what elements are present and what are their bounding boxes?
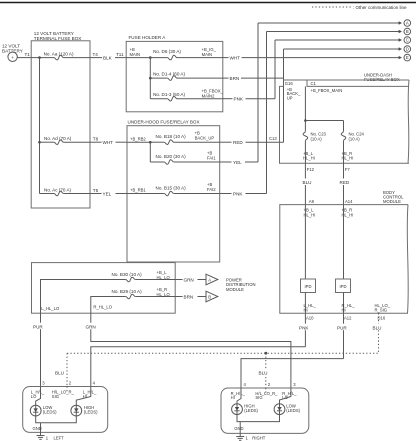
svg-text:T5: T5 (93, 188, 99, 193)
svg-text:HL_LO: HL_LO (157, 275, 171, 280)
svg-text:No. Ad (70 A): No. Ad (70 A) (44, 136, 72, 141)
triangle connector A (206, 274, 218, 285)
wire GRN R_HL_LO to right headlight pin 3 (84, 313, 291, 388)
svg-text:No. D6 (30 A): No. D6 (30 A) (153, 49, 181, 54)
connector D (284, 46, 411, 53)
svg-text:PUR: PUR (33, 324, 43, 329)
svg-text:No. D1-4 (60 A): No. D1-4 (60 A) (153, 71, 185, 76)
wire PNK A10 L_HL_HI to left headlight pin 4 (91, 313, 312, 386)
ground right, pin 1 (236, 433, 266, 440)
svg-text:GND: GND (33, 426, 42, 431)
svg-text:PNK: PNK (299, 325, 309, 330)
right headlight (221, 388, 309, 433)
wire BLU dotted drop to left headlight pin 2 (55, 353, 67, 386)
wire PUR A12 R_HL_HI to right headlight pin 4 (241, 313, 350, 388)
svg-text:YEL: YEL (103, 192, 112, 197)
svg-text:No. B20 (30 A): No. B20 (30 A) (156, 154, 187, 159)
svg-text:No. B18 (10 A): No. B18 (10 A) (156, 134, 187, 139)
IPD right (336, 279, 351, 293)
svg-text:GRN: GRN (184, 277, 194, 282)
node L_HL_HI (304, 303, 317, 312)
lamp HIGH (LEDS) right (232, 403, 259, 414)
svg-text:R_SIG: R_SIG (375, 307, 388, 312)
svg-text:B: B (208, 294, 211, 299)
fuse D6 (30 A) (150, 47, 223, 60)
svg-text:: Other communication line: : Other communication line (353, 5, 407, 10)
svg-text:G16: G16 (285, 81, 294, 86)
svg-text:2: 2 (268, 382, 271, 387)
wire GRN to triangle connector A (175, 277, 205, 282)
wire YEL +B FAI1 to connector A (220, 160, 258, 165)
node L_HL_HI pin label (83, 389, 97, 398)
svg-text:(10 A): (10 A) (311, 136, 323, 141)
svg-text:FUSE/RELAY BOX: FUSE/RELAY BOX (364, 77, 400, 82)
wire RED F7 to BCM A14 (339, 163, 351, 204)
fuse Aa (120 A) (31, 51, 90, 59)
wire BRN to connector D (223, 76, 284, 81)
top page border line (0, 2, 416, 4)
wire BLU F12 to BCM A9 (302, 163, 313, 204)
svg-text:BRN: BRN (230, 76, 240, 81)
connector B (267, 28, 411, 35)
lamp HIGH (LEDS) left (71, 405, 98, 416)
wire battery to fuse box, terminal T1 (17, 52, 31, 57)
svg-text:(LEDS): (LEDS) (84, 410, 98, 415)
wire BLU D16 communication line (67, 313, 385, 353)
svg-text:T1: T1 (25, 52, 31, 57)
svg-text:BRN: BRN (184, 294, 194, 299)
svg-text:No. Ac (70 A): No. Ac (70 A) (44, 187, 72, 192)
svg-text:MODULE: MODULE (383, 199, 401, 204)
node HL_LO_R_SIG (375, 303, 391, 312)
svg-text:BLU: BLU (303, 180, 312, 185)
node under-dash internal bus (304, 86, 343, 131)
svg-text:BLU: BLU (259, 371, 268, 376)
svg-text:3: 3 (293, 382, 296, 387)
wire pin4 to high beam lamp (76, 387, 91, 406)
svg-text:D: D (406, 47, 409, 52)
svg-text:No. D1-3 (50 A): No. D1-3 (50 A) (153, 92, 185, 97)
svg-text:+B_FBOX_MAIN: +B_FBOX_MAIN (311, 88, 343, 93)
svg-text:A: A (208, 277, 211, 282)
svg-text:RIGHT: RIGHT (252, 436, 265, 441)
svg-text:HL_HI: HL_HI (303, 156, 315, 161)
svg-text:MAIN2: MAIN2 (202, 93, 215, 98)
svg-text:4: 4 (93, 380, 96, 385)
svg-text:A14: A14 (345, 199, 353, 204)
svg-text:HI: HI (342, 307, 346, 312)
under-dash fuse/relay box (280, 73, 410, 164)
svg-text:3: 3 (42, 380, 45, 385)
node R_HL_HI (342, 303, 356, 312)
power distribution module label (226, 277, 256, 292)
node +B MAIN (126, 56, 151, 98)
svg-text:A9: A9 (309, 199, 315, 204)
lamp LOW (LEDS) right (274, 403, 301, 414)
svg-text:4: 4 (244, 382, 247, 387)
fuse B18 (10 A) (150, 131, 219, 145)
fuse C23 (10 A) (303, 131, 327, 163)
ground left, pin 1 (37, 432, 65, 440)
svg-text:UP: UP (287, 96, 293, 101)
svg-text:FAI2: FAI2 (207, 187, 216, 192)
connector E (399, 54, 411, 61)
svg-text:No. B29 (10 A): No. B29 (10 A) (112, 289, 143, 294)
svg-text:A12: A12 (344, 316, 352, 321)
12 volt battery (2, 44, 23, 62)
node battery bus (38, 56, 41, 193)
fuse D1-3 (50 A) (150, 89, 223, 101)
triangle connector B (206, 291, 218, 302)
svg-text:GRN: GRN (86, 324, 96, 329)
wire pin3 to low beam lamp right (280, 388, 291, 404)
svg-text:A10: A10 (306, 316, 314, 321)
node +B_R HL_HI (BCM) (342, 205, 354, 279)
connector C (275, 37, 411, 44)
svg-text:IPD: IPD (340, 284, 347, 289)
fuse Ac (70 A) (40, 187, 91, 196)
svg-text:(10 A): (10 A) (349, 136, 361, 141)
svg-text:B: B (406, 29, 409, 34)
node HL_LO_R_SIG pin label left (52, 389, 75, 398)
fuse B29 (10 A) (91, 287, 175, 313)
svg-text:F7: F7 (345, 167, 351, 172)
under-hood fuse/relay box (127, 120, 220, 262)
svg-text:E: E (406, 55, 409, 60)
svg-text:RED: RED (233, 140, 243, 145)
svg-text:T11: T11 (116, 52, 124, 57)
node R_HL_HI pin label (231, 391, 246, 400)
fuse B20 (30 A) (150, 151, 219, 165)
svg-text:C: C (406, 38, 409, 43)
svg-text:No. B30 (10 A): No. B30 (10 A) (112, 272, 143, 277)
node L_HL_LO pin label (31, 389, 45, 398)
svg-text:BACK_UP: BACK_UP (195, 135, 215, 140)
svg-text:GND: GND (234, 426, 243, 431)
wire BLU dotted drop to right headlight pin 2 (258, 353, 271, 388)
svg-text:FAI1: FAI1 (207, 155, 216, 160)
svg-text:+: + (11, 55, 14, 60)
svg-text:RED: RED (340, 180, 350, 185)
svg-text:LO: LO (31, 394, 37, 399)
svg-text:SIG: SIG (52, 394, 59, 399)
svg-text:No. B15 (30 A): No. B15 (30 A) (156, 185, 187, 190)
ground rail right (234, 415, 279, 434)
power distribution module box (32, 263, 176, 314)
svg-text:T4: T4 (93, 52, 99, 57)
12 volt battery terminal fuse box (31, 31, 90, 208)
wire RED +B BACK_UP to under-dash C13 (220, 140, 284, 145)
connector A (258, 20, 411, 27)
fuse D1-4 (60 A) (150, 71, 223, 80)
svg-text:PUR: PUR (337, 325, 347, 330)
wire riser to connector B (266, 32, 268, 194)
wire riser to connector C (274, 40, 276, 99)
svg-text:No. Aa (120 A): No. Aa (120 A) (44, 51, 74, 56)
body control module (280, 190, 408, 313)
wire pin2 stub left (66, 387, 68, 393)
svg-text:D16: D16 (378, 316, 386, 321)
wire PUR L_HL_LO to left headlight pin 3 (32, 313, 46, 386)
svg-text:BATTERY: BATTERY (2, 49, 23, 54)
wire T4 BLK to fuse holder A, terminal T11 (90, 52, 126, 60)
svg-text:C13: C13 (269, 136, 277, 141)
node +B_RB2 (127, 136, 152, 162)
svg-text:+B_RB1: +B_RB1 (130, 187, 146, 192)
svg-text:(LEDS): (LEDS) (244, 408, 258, 413)
wire PNK +B_FBOX_MAIN2 to connector C (223, 97, 275, 102)
IPD left (301, 279, 316, 293)
svg-text:1: 1 (46, 435, 49, 440)
wire IPD left to A10 (304, 293, 306, 314)
ground rail left (33, 416, 77, 432)
wire T8 WHT to under-hood box (90, 136, 127, 145)
svg-text:IPD: IPD (305, 284, 312, 289)
fuse Ad (70 A) (40, 136, 91, 145)
wire T5 YEL to under-hood box (90, 188, 127, 197)
svg-text:2: 2 (69, 380, 72, 385)
fuse B30 (10 A) (41, 270, 176, 313)
svg-text:MODULE: MODULE (226, 287, 244, 292)
wire pin3 to low beam lamp (36, 387, 41, 406)
wire riser to connector A (257, 23, 259, 162)
node HL_LO_R_SIG pin label right (255, 391, 278, 400)
svg-text:PNK: PNK (234, 97, 244, 102)
svg-text:HL_LO: HL_LO (157, 292, 171, 297)
node R_HL_LO pin label (282, 391, 297, 400)
svg-text:L_HL_LO: L_HL_LO (41, 306, 60, 311)
svg-text:C1: C1 (311, 81, 317, 86)
wire riser to connector D / G16 feed (283, 49, 285, 142)
fuse C24 (10 A) (341, 131, 364, 163)
svg-text:(LEDS): (LEDS) (286, 408, 300, 413)
svg-text:WHT: WHT (230, 55, 241, 60)
wire BRN to triangle connector B (175, 294, 205, 299)
svg-text:WHT: WHT (103, 140, 114, 145)
fuse holder A (126, 35, 223, 112)
svg-text:MAIN: MAIN (202, 52, 212, 57)
left headlight (23, 387, 108, 433)
svg-text:TERMINAL FUSE BOX: TERMINAL FUSE BOX (34, 36, 82, 41)
svg-text:1: 1 (246, 436, 249, 441)
svg-text:FUSE HOLDER A: FUSE HOLDER A (129, 35, 167, 40)
svg-text:HL_HI: HL_HI (342, 156, 354, 161)
svg-text:LEFT: LEFT (54, 435, 65, 440)
fuse B15 (30 A) (156, 182, 220, 196)
svg-text:BLU: BLU (55, 371, 64, 376)
svg-text:UNDER-HOOD FUSE/RELAY BOX: UNDER-HOOD FUSE/RELAY BOX (128, 120, 200, 125)
node +B_L HL_HI (BCM) (304, 205, 316, 279)
svg-text:SIG: SIG (255, 395, 262, 400)
node dotted junction (264, 352, 267, 355)
svg-text:+B_RB2: +B_RB2 (130, 136, 146, 141)
svg-text:HI: HI (231, 395, 235, 400)
svg-text:(LEDS): (LEDS) (43, 410, 57, 415)
wire pin2 stub right (265, 388, 267, 394)
wire PNK +B FAI2 to connector B (220, 191, 267, 196)
svg-text:MAIN: MAIN (130, 52, 140, 57)
svg-text:F12: F12 (307, 167, 315, 172)
lamp LOW (LEDS) left (30, 405, 57, 416)
svg-text:PNK: PNK (233, 191, 243, 196)
wire WHT +B_IG_MAIN to connector E (223, 55, 401, 60)
svg-text:YEL: YEL (233, 160, 242, 165)
svg-text:BLK: BLK (103, 55, 113, 60)
svg-text:T8: T8 (93, 136, 99, 141)
svg-text:A: A (406, 21, 409, 26)
node +B_RB1 (127, 187, 164, 193)
wire pin4 to high beam lamp right (237, 388, 241, 404)
wire IPD right to A12 (343, 293, 345, 314)
legend: other communication line (312, 5, 407, 10)
svg-text:HI: HI (304, 307, 308, 312)
svg-text:BLU: BLU (373, 325, 382, 330)
node +B BACK_UP (287, 87, 301, 101)
svg-text:R_HL_LO: R_HL_LO (93, 305, 112, 310)
